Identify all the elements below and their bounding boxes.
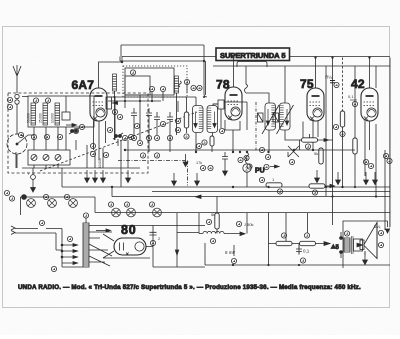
wire second top bus xyxy=(120,57,248,96)
ground arrow 7 xyxy=(223,163,228,176)
detector components column xyxy=(195,146,197,152)
wire tone links xyxy=(269,213,329,255)
antenna coil L2 xyxy=(43,103,48,125)
trimmer C2 xyxy=(43,155,49,161)
IFT2 trimmer C16 xyxy=(258,113,264,122)
wire varcap stators xyxy=(76,139,128,187)
wire top bus B+ xyxy=(122,56,390,58)
variable capacitor C5b xyxy=(113,133,134,140)
wire coil mid links xyxy=(34,127,66,150)
connector shell below title xyxy=(237,62,267,68)
wire mains riser xyxy=(56,229,83,268)
wire right verticals xyxy=(326,58,390,231)
capacitor C13 xyxy=(236,221,253,227)
ground arrow 5b xyxy=(183,154,188,167)
coupling capacitor C11 xyxy=(348,94,358,107)
corner terminals xyxy=(4,190,14,201)
mixer marks xyxy=(112,109,189,145)
detector mark xyxy=(196,161,206,171)
pilot lamp P4 xyxy=(108,202,120,217)
gang linkage dashed xyxy=(40,112,197,171)
padder marks xyxy=(90,151,108,168)
PU arrow xyxy=(275,165,280,168)
field coil L6 xyxy=(203,231,245,243)
tone box frame xyxy=(205,213,390,266)
output transformer T2 secondary xyxy=(354,239,363,251)
wire center column xyxy=(199,197,247,234)
wire 75 pins xyxy=(313,121,318,150)
speaker LS xyxy=(357,223,377,259)
label A5 xyxy=(331,244,340,251)
capacitor C14 8mF xyxy=(225,245,237,264)
ground arrow 3 xyxy=(101,170,106,183)
osc grid capacitor C9 xyxy=(167,112,173,125)
wire IFT2 leads xyxy=(246,66,303,152)
AVC diagonal xyxy=(262,105,294,134)
tube V3 75 xyxy=(307,88,324,121)
coil value labels xyxy=(27,113,55,123)
pilot lamp P3 xyxy=(64,194,77,207)
IFT1 secondary can xyxy=(207,106,218,133)
wire osc internals xyxy=(125,85,187,136)
resistor R9 xyxy=(276,233,292,246)
resistor R10 xyxy=(300,233,316,246)
antenna coil L1 xyxy=(31,103,36,125)
output transformer T2 primary xyxy=(344,236,353,254)
wire 75 top cap xyxy=(315,58,317,89)
wire rectifier leads xyxy=(103,213,205,267)
ground arrow 10 xyxy=(364,172,369,185)
osc squiggle xyxy=(179,81,182,87)
mixer grid capacitor C6 xyxy=(131,108,137,121)
resistor R11 xyxy=(314,148,323,164)
plate resistor R3 xyxy=(300,134,333,150)
osc marks xyxy=(149,79,202,91)
wire antenna to switch xyxy=(16,104,18,134)
dashed feeder xyxy=(342,58,344,112)
ground arrow 2 xyxy=(93,170,98,183)
coil top terminals xyxy=(33,98,50,103)
primary tap arrows xyxy=(51,236,77,271)
coupling coil L7 xyxy=(113,74,117,140)
ground arrow 11 xyxy=(373,172,378,185)
wire mid bus xyxy=(152,191,390,193)
IFT1 primary can xyxy=(193,106,204,133)
arrow trimmer feed xyxy=(66,124,79,134)
oscillator trim block xyxy=(125,68,174,95)
wire AVC bus xyxy=(125,149,355,151)
volume control R7 xyxy=(309,184,335,195)
transformer terminals xyxy=(340,231,350,258)
osc grid capacitor C8 xyxy=(154,112,160,125)
wire coil bottom bus xyxy=(16,152,140,168)
IFT2 primary can xyxy=(265,103,276,130)
pilot lamp P5 xyxy=(124,202,135,217)
terminal T xyxy=(27,168,35,192)
pilot lamp P6 xyxy=(149,202,161,217)
trimmer C3 xyxy=(55,155,61,161)
choke resistor R8 xyxy=(206,212,219,229)
capacitor C15 xyxy=(296,246,310,263)
osc junction dots xyxy=(113,96,153,102)
power transformer T1 xyxy=(83,213,89,267)
arrow on return xyxy=(175,250,178,255)
variable capacitor C5a xyxy=(69,124,85,134)
6A7 grid cap box xyxy=(106,97,118,109)
wire ground bus xyxy=(62,168,390,187)
ground arrow 4 xyxy=(126,170,131,183)
antenna terminal A xyxy=(7,94,19,109)
trimmer C1 xyxy=(31,155,37,161)
coil marks row xyxy=(18,132,62,139)
scan noise texture xyxy=(0,0,1,1)
wire IFT1 leads xyxy=(196,97,218,152)
ground arrow 9 xyxy=(336,172,341,185)
grid stopper box xyxy=(213,100,247,130)
mains switch S2 xyxy=(15,220,62,233)
tube V2 78 xyxy=(225,87,242,120)
wire B minus bus xyxy=(112,187,390,197)
wire pre-bus xyxy=(121,45,207,97)
volume control R6 xyxy=(266,177,283,194)
pilot lamp P2 xyxy=(43,194,56,207)
oscillator dotted box xyxy=(123,66,187,97)
cathode marks 6A7 xyxy=(90,127,112,148)
capacitor C12 xyxy=(222,152,228,163)
antenna coil L3 xyxy=(55,103,60,125)
phono jack PU xyxy=(208,164,269,183)
capacitor C10 xyxy=(325,75,339,88)
IFT2 trimmer C17 xyxy=(273,113,279,122)
wire coil top bus xyxy=(22,97,66,113)
resistor R2 xyxy=(202,128,225,152)
ground arrow 5 xyxy=(172,173,177,186)
cathode resistor R5 xyxy=(333,111,345,137)
oscillator coil L4 xyxy=(175,76,179,93)
arrow to rectifier xyxy=(96,229,111,232)
wire 78 top cap xyxy=(233,58,235,88)
pilot lamp P1 xyxy=(22,195,36,208)
wire mixer column xyxy=(115,97,187,152)
mixer marks extra xyxy=(117,114,180,128)
wire 6A7 top cap xyxy=(99,57,123,89)
title box SUPERTRIUNDA 5 xyxy=(216,48,290,61)
trimmer unit box xyxy=(28,150,70,165)
resistor R1 xyxy=(184,112,188,128)
tube V4 42 xyxy=(361,88,378,121)
ground arrow 8 xyxy=(315,170,320,183)
speaker marks xyxy=(374,224,390,248)
mains terminals xyxy=(11,226,15,235)
bus arrow xyxy=(196,195,202,198)
filter capacitor C18 xyxy=(150,232,162,245)
wire second bus right xyxy=(213,65,390,67)
ground arrow output xyxy=(363,251,368,265)
grid resistor R4 xyxy=(353,138,374,169)
tube V1 6A7 xyxy=(90,88,107,121)
coil unit box xyxy=(28,96,94,127)
wire 6A7 pins down xyxy=(94,121,106,160)
arrow into output xyxy=(324,242,330,246)
right edge marks xyxy=(383,153,392,163)
mixer grid capacitor C7 xyxy=(146,108,152,121)
AVC dash vertical xyxy=(255,102,257,152)
wire 6A7 plate lead xyxy=(108,97,196,101)
speaker frame xyxy=(343,221,388,268)
ground arrow 1 xyxy=(85,170,90,183)
wire PU area xyxy=(246,153,277,188)
IFT2 secondary can xyxy=(280,103,291,130)
AVC marks xyxy=(140,143,201,158)
band switch S1 xyxy=(7,134,34,168)
wire 78 shield box xyxy=(225,120,240,152)
diode wires crossing xyxy=(259,146,299,165)
ground arrow 6 xyxy=(195,173,200,186)
trimmer C4 xyxy=(62,112,70,120)
shield dash-dot line xyxy=(118,161,188,186)
wire 42 top cap xyxy=(369,58,371,89)
junction dots mid xyxy=(111,56,377,266)
wire secondary taps xyxy=(89,226,205,267)
rectifier tube V5 80 xyxy=(114,238,146,255)
wire lamp bus xyxy=(21,197,391,215)
switch circled 2 xyxy=(238,155,251,172)
shield dashed box xyxy=(8,93,148,173)
antenna xyxy=(13,65,21,93)
